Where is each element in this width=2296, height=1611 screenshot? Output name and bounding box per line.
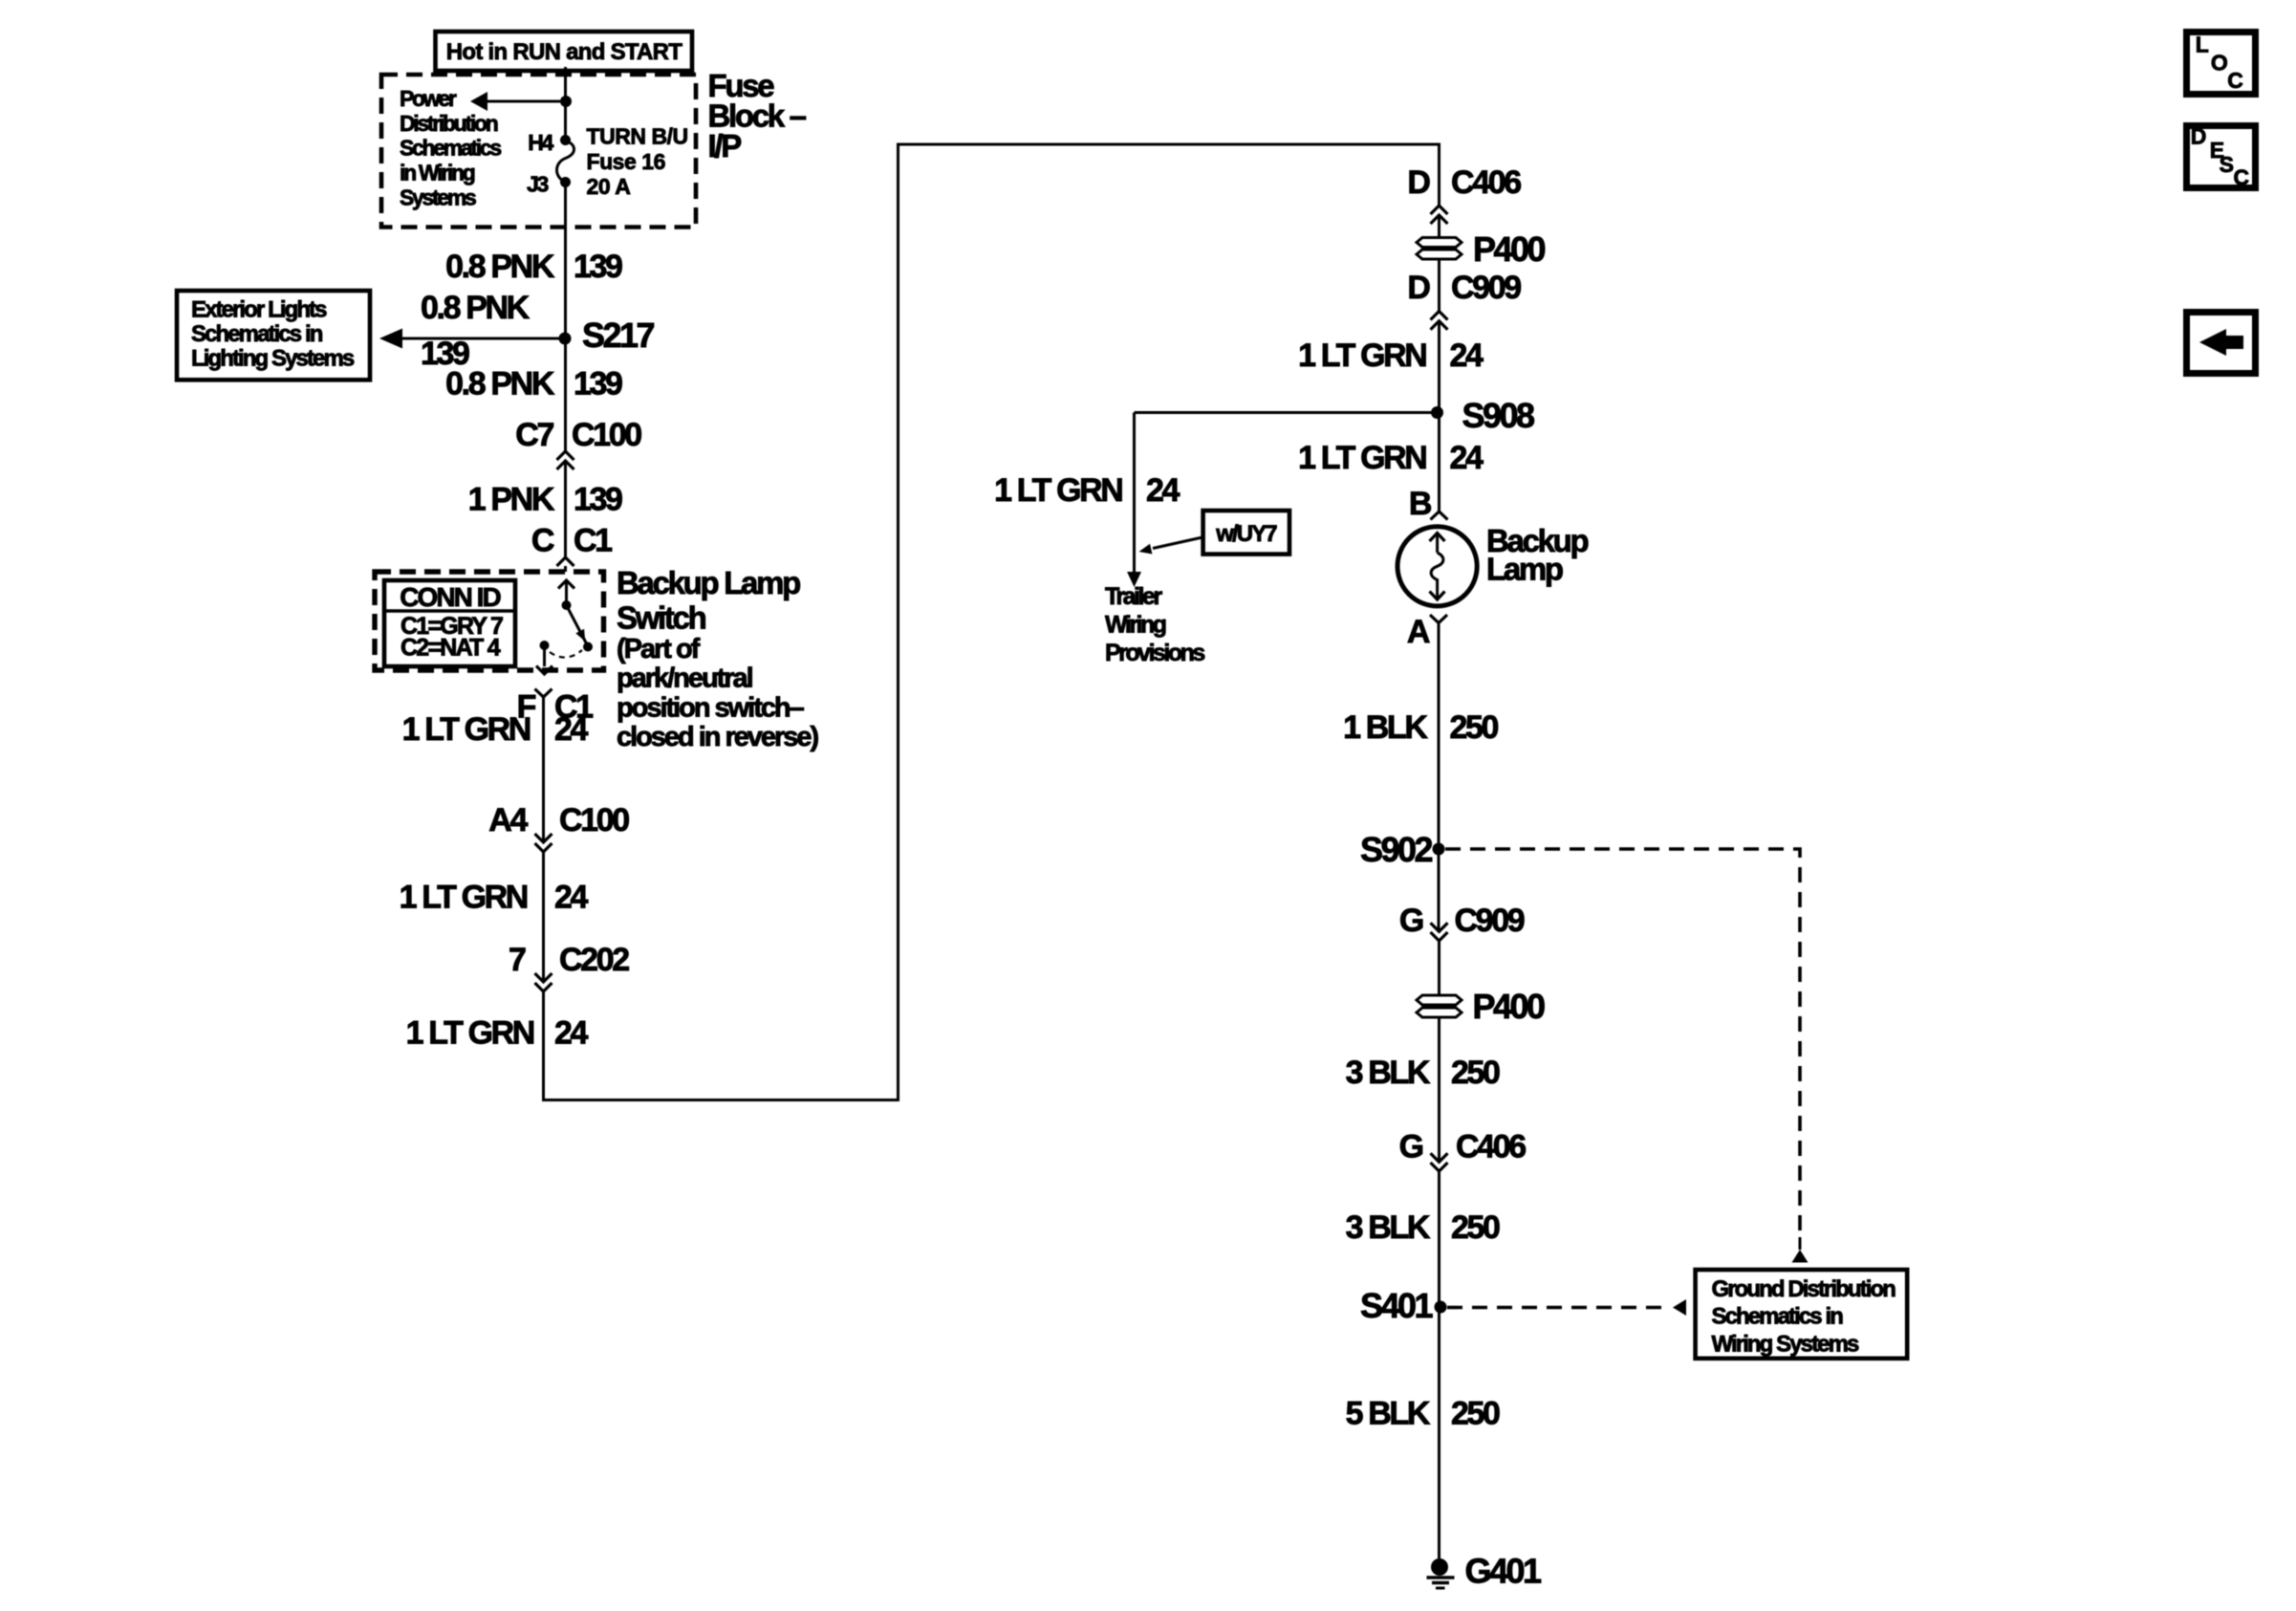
svg-text:P400: P400 [1473, 229, 1545, 269]
label: 1 LT GRN 24 on branch [994, 472, 1180, 509]
svg-text:0.8 PNK: 0.8 PNK [445, 366, 555, 403]
svg-text:3 BLK: 3 BLK [1346, 1209, 1431, 1246]
svg-text:w/UY7: w/UY7 [1215, 521, 1277, 547]
wire: 1 LT GRN 24 to S908 [1438, 321, 1440, 512]
svg-text:Lighting Systems: Lighting Systems [191, 346, 355, 372]
splice S217 [559, 316, 655, 355]
icon: DESC button [2187, 123, 2256, 189]
svg-text:24: 24 [1450, 337, 1484, 374]
svg-text:position switch–: position switch– [617, 692, 805, 723]
switch pin arrow (top) [558, 580, 574, 610]
backup lamp [1397, 523, 1588, 606]
svg-text:Lamp: Lamp [1486, 552, 1563, 587]
dashed reference from S902 to ground distribution [1445, 849, 1809, 1263]
connector C406 pin D [1407, 164, 1521, 224]
wire: feed from Hot bus into fuse block [564, 67, 567, 141]
svg-text:S: S [2220, 152, 2234, 177]
note: Power Distribution Schematics in Wiring Systems [400, 86, 501, 210]
svg-text:C909: C909 [1455, 903, 1525, 939]
label: Backup Lamp Switch [617, 565, 818, 752]
svg-text:D: D [1407, 164, 1430, 201]
CONN ID table [384, 580, 515, 666]
connector C1 pin F [517, 689, 594, 726]
note: Trailer Wiring Provisions [1105, 583, 1204, 666]
svg-text:5 BLK: 5 BLK [1346, 1396, 1431, 1432]
svg-text:1 LT GRN: 1 LT GRN [406, 1015, 534, 1052]
splice S908 [1431, 396, 1534, 435]
box: Exterior Lights Schematics in Lighting Systems [177, 291, 370, 380]
svg-text:D: D [1407, 270, 1430, 306]
svg-text:0.8 PNK: 0.8 PNK [421, 290, 531, 326]
wire through P400 [1438, 215, 1440, 312]
box: Hot in RUN and START [436, 32, 693, 71]
label: Fuse Block - I/P [708, 68, 807, 163]
svg-text:20 A: 20 A [587, 174, 631, 199]
connector C1 pin C [531, 523, 612, 567]
svg-text:C2=NAT 4: C2=NAT 4 [401, 635, 501, 662]
svg-text:C: C [2227, 68, 2242, 93]
svg-text:250: 250 [1451, 1209, 1500, 1246]
svg-text:C909: C909 [1451, 270, 1521, 306]
connector C909 pin D [1407, 270, 1521, 330]
label: 3 BLK 250 [1346, 1055, 1500, 1091]
label: 1 LT GRN 24 [402, 711, 589, 748]
svg-text:J3: J3 [527, 172, 548, 197]
svg-text:G401: G401 [1465, 1552, 1542, 1591]
svg-text:250: 250 [1450, 709, 1499, 746]
svg-text:24: 24 [1450, 440, 1484, 476]
svg-text:S908: S908 [1462, 396, 1534, 435]
icon: back arrow button [2187, 313, 2256, 374]
connector C406 pin G [1399, 1129, 1527, 1172]
node: junction dot at fuse feed [560, 96, 572, 107]
svg-text:1 LT GRN: 1 LT GRN [994, 472, 1122, 509]
fuse block dashed box [381, 75, 696, 228]
svg-text:G: G [1399, 1129, 1423, 1165]
dashed reference from S401 to ground distribution box [1447, 1299, 1686, 1316]
svg-text:Schematics in: Schematics in [191, 321, 323, 347]
label: TURN B/U Fuse 16 20 A [587, 124, 688, 200]
svg-text:Wiring: Wiring [1105, 612, 1166, 639]
wire into switch [564, 566, 567, 572]
svg-text:Trailer: Trailer [1105, 583, 1162, 610]
svg-text:C: C [2234, 165, 2249, 190]
label: 1 LT GRN 24 [400, 880, 589, 916]
svg-text:Systems: Systems [400, 185, 476, 210]
label: 0.8 PNK 139 [445, 249, 622, 285]
svg-text:24: 24 [554, 880, 589, 916]
svg-text:CONN ID: CONN ID [400, 582, 501, 612]
svg-text:Schematics: Schematics [400, 136, 501, 161]
svg-text:24: 24 [554, 1015, 589, 1052]
svg-text:C406: C406 [1456, 1129, 1526, 1165]
svg-text:C: C [531, 523, 554, 559]
svg-text:Provisions: Provisions [1105, 640, 1204, 666]
wire: 1 BLK 250 from lamp to S902 [1438, 623, 1440, 932]
svg-text:Backup Lamp: Backup Lamp [617, 565, 800, 600]
svg-text:TURN B/U: TURN B/U [587, 124, 688, 149]
svg-text:0.8 PNK: 0.8 PNK [445, 249, 555, 285]
svg-text:Hot in RUN and START: Hot in RUN and START [446, 39, 683, 65]
splice S401 [1360, 1286, 1447, 1325]
svg-text:in Wiring: in Wiring [400, 161, 475, 185]
splice S902 [1360, 830, 1445, 869]
label: 1 LT GRN 24 above B [1298, 440, 1484, 476]
svg-text:P400: P400 [1473, 987, 1545, 1026]
svg-text:closed in reverse): closed in reverse) [617, 722, 818, 752]
svg-text:24: 24 [1146, 472, 1180, 509]
pass-through grommet P400 (rear) [1417, 987, 1545, 1026]
svg-text:1 LT GRN: 1 LT GRN [1298, 337, 1426, 374]
wire: 3 BLK 250 to S401 [1438, 1171, 1440, 1558]
svg-text:24: 24 [554, 711, 589, 748]
icon: LOC button [2187, 33, 2256, 95]
fuse F16 element (TURN B/U Fuse 16 20 A) [557, 141, 574, 183]
svg-text:Power: Power [400, 86, 457, 111]
wire: 0.8 PNK 139 branch to Exterior Lights [379, 290, 559, 372]
svg-text:C1: C1 [574, 523, 612, 559]
svg-text:A4: A4 [488, 802, 528, 838]
svg-text:D: D [2191, 123, 2206, 148]
svg-text:A: A [1407, 614, 1430, 650]
svg-text:1 LT GRN: 1 LT GRN [1298, 440, 1426, 476]
svg-text:Wiring Systems: Wiring Systems [1712, 1332, 1860, 1358]
wire: arrow to Power Distribution [470, 92, 560, 111]
svg-text:1 PNK: 1 PNK [468, 482, 555, 518]
switch travel arc (dashed) [550, 650, 582, 658]
svg-text:I/P: I/P [708, 128, 742, 163]
lamp connector pin B [1409, 486, 1448, 522]
connector C202 pin 7 [509, 942, 629, 991]
wire through second P400 [1438, 941, 1440, 1162]
wire: 0.8 PNK 139 from fuse to S217 to C100 [564, 183, 567, 452]
svg-text:C100: C100 [559, 802, 629, 838]
svg-text:1 BLK: 1 BLK [1343, 709, 1428, 746]
label: 5 BLK 250 [1346, 1396, 1500, 1432]
svg-text:G: G [1399, 903, 1423, 939]
wire: 1 LT GRN 24 routed to right column [544, 144, 1440, 1100]
svg-text:Fuse 16: Fuse 16 [587, 149, 665, 174]
label: 3 BLK 250 [1346, 1209, 1500, 1246]
label: 1 LT GRN 24 [1298, 337, 1484, 374]
label: 0.8 PNK 139 below S217 [445, 366, 622, 403]
svg-text:250: 250 [1451, 1055, 1500, 1091]
svg-text:S217: S217 [582, 316, 654, 355]
svg-text:S401: S401 [1360, 1286, 1433, 1325]
svg-text:C7: C7 [515, 417, 553, 453]
svg-text:C100: C100 [572, 417, 641, 453]
svg-text:250: 250 [1451, 1396, 1500, 1432]
svg-text:Schematics in: Schematics in [1712, 1304, 1844, 1330]
connector C100 pin C7 [515, 417, 641, 469]
svg-text:C202: C202 [559, 942, 629, 978]
switch blade [567, 605, 594, 652]
svg-text:park/neutral: park/neutral [617, 664, 752, 694]
svg-text:7: 7 [509, 942, 526, 978]
label: 1 PNK 139 [468, 482, 622, 518]
wire: 1 LT GRN 24 [542, 852, 545, 982]
svg-text:139: 139 [574, 366, 622, 403]
svg-text:3 BLK: 3 BLK [1346, 1055, 1431, 1091]
backup lamp switch dashed box [375, 572, 604, 670]
wire: 1 PNK 139 [564, 461, 567, 557]
svg-text:Switch: Switch [617, 600, 706, 636]
svg-text:139: 139 [574, 249, 622, 285]
svg-text:C406: C406 [1451, 164, 1521, 201]
svg-text:1 LT GRN: 1 LT GRN [402, 711, 531, 748]
connector C909 pin G [1399, 903, 1525, 941]
box: Ground Distribution Schematics in Wiring Systems [1696, 1270, 1908, 1359]
wire: 1 LT GRN 24 [542, 697, 545, 842]
svg-text:H4: H4 [528, 130, 553, 155]
ground G401 [1427, 1552, 1542, 1591]
label: 1 LT GRN 24 [406, 1015, 589, 1052]
svg-text:O: O [2211, 50, 2227, 75]
svg-text:Distribution: Distribution [400, 111, 498, 136]
svg-text:Exterior Lights: Exterior Lights [191, 297, 327, 323]
svg-text:Ground Distribution: Ground Distribution [1712, 1276, 1896, 1302]
lamp connector pin A [1407, 614, 1447, 650]
label: 1 BLK 250 [1343, 709, 1498, 746]
svg-text:(Part of: (Part of [617, 634, 701, 664]
svg-text:1 LT GRN: 1 LT GRN [400, 880, 528, 916]
connector C100 pin A4 [488, 802, 629, 852]
pass-through grommet P400 [1417, 229, 1545, 269]
svg-text:L: L [2196, 33, 2209, 57]
box: w/UY7 [1139, 511, 1290, 555]
svg-text:139: 139 [574, 482, 622, 518]
svg-text:S902: S902 [1360, 830, 1432, 869]
switch pin arrow (bottom) [536, 641, 552, 674]
pin J3 [527, 172, 571, 197]
svg-text:B: B [1409, 486, 1432, 522]
pin H4 [528, 130, 571, 155]
wire: branch from S908 to trailer provisions [1127, 413, 1438, 588]
